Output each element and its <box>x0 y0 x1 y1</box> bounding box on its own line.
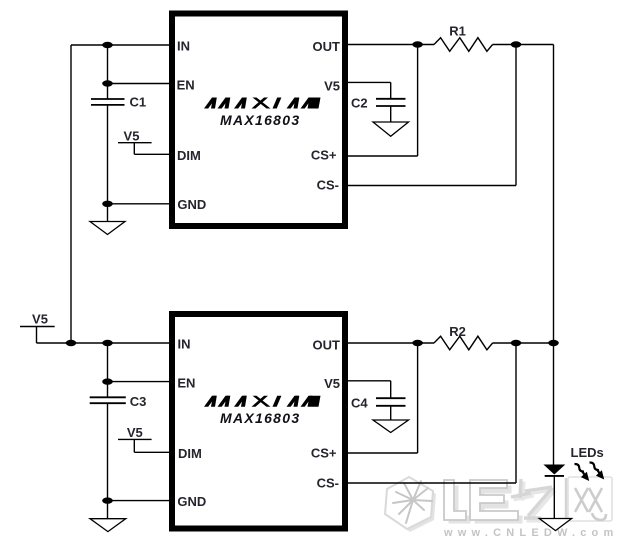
svg-text:EN: EN <box>177 78 195 93</box>
svg-text:GND: GND <box>177 197 206 212</box>
svg-text:MAX16803: MAX16803 <box>220 410 300 426</box>
svg-text:GND: GND <box>177 494 206 509</box>
svg-text:IN: IN <box>177 39 190 54</box>
svg-text:OUT: OUT <box>313 39 341 54</box>
svg-text:C4: C4 <box>351 396 368 411</box>
svg-text:CS+: CS+ <box>311 446 337 461</box>
svg-text:C3: C3 <box>130 394 147 409</box>
svg-text:www.CNLEDW.com: www.CNLEDW.com <box>443 527 618 539</box>
svg-text:V5: V5 <box>32 311 48 326</box>
svg-text:CS+: CS+ <box>311 148 337 163</box>
svg-text:OUT: OUT <box>313 338 341 353</box>
svg-text:IN: IN <box>178 337 191 352</box>
svg-text:R2: R2 <box>449 324 466 339</box>
svg-text:R1: R1 <box>449 24 466 39</box>
svg-text:C1: C1 <box>130 95 147 110</box>
svg-text:V5: V5 <box>127 425 143 440</box>
svg-text:DIM: DIM <box>178 446 202 461</box>
svg-text:V5: V5 <box>324 376 340 391</box>
svg-text:DIM: DIM <box>177 148 201 163</box>
svg-text:CS-: CS- <box>317 476 339 491</box>
svg-text:V5: V5 <box>124 129 140 144</box>
svg-text:LEDs: LEDs <box>571 445 604 460</box>
svg-text:MAX16803: MAX16803 <box>220 112 300 128</box>
svg-text:CS-: CS- <box>317 177 339 192</box>
svg-text:EN: EN <box>177 376 195 391</box>
svg-text:V5: V5 <box>324 78 340 93</box>
svg-text:C2: C2 <box>351 96 368 111</box>
